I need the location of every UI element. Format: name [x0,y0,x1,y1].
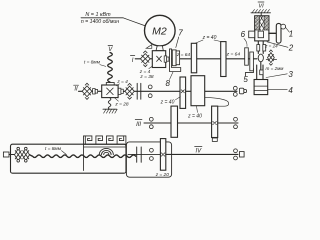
gear z=20 [160,139,165,171]
shaft II [79,90,238,92]
thrust bearing 2 shaft II [125,83,134,99]
brake mark [146,45,152,49]
svg-text:8: 8 [165,79,170,88]
thrust bearing left shaft II [82,83,92,99]
svg-text:М2: М2 [152,25,167,37]
screw gear cap [212,138,217,141]
svg-text:z = 28: z = 28 [114,101,129,107]
svg-text:6: 6 [241,30,246,39]
knob on spindle [258,54,263,62]
shaft IV [166,153,238,155]
svg-text:7: 7 [178,29,183,38]
svg-text:5: 5 [243,75,248,84]
screw V wavy [108,53,113,83]
bearing circles shaft IV right [234,149,238,153]
handwheel star [266,50,276,65]
table box [11,144,127,173]
gear on shaft III [171,106,178,137]
s-curve link [205,97,229,106]
ledge left of block [249,31,255,38]
svg-text:1: 1 [289,30,293,39]
bearing circles shaft III right [234,117,238,121]
svg-text:II: II [74,86,78,92]
svg-text:3: 3 [288,70,293,79]
lever 8 bracket [170,49,181,72]
small gear pair on shaft I [172,50,176,66]
screw cap [106,83,114,85]
drive end cap [3,152,9,157]
svg-text:z = 64: z = 64 [176,52,191,58]
gear z=40 no.2 on shaft I [221,42,226,77]
svg-text:t = 8мм: t = 8мм [84,60,101,66]
claw clutch shaft IV [137,147,142,162]
svg-text:t = 8мм: t = 8мм [45,146,62,152]
svg-text:4: 4 [288,86,293,95]
fixed support hatched bar [251,12,271,14]
sliding gear cluster [245,48,249,65]
coupling left of worm box [93,89,96,94]
motor M2 [145,15,176,46]
bearing circles shaft II [148,85,152,89]
fork lever 5 [245,69,253,77]
squiggle to ground [108,98,111,110]
svg-text:VI: VI [258,4,264,10]
gear z=40 no.1 on shaft I [191,43,196,73]
bevel gears z=24 [257,45,260,51]
svg-text:z = 38: z = 38 [139,74,154,80]
svg-text:m = 2мм: m = 2мм [266,66,285,71]
tool in block [258,31,263,38]
coupling right of worm box [118,88,121,94]
claw clutch shaft II [137,83,141,99]
svg-text:2: 2 [288,44,294,53]
coupling right of box [164,56,167,62]
shaft III [144,122,238,124]
spindle quill [257,65,263,80]
svg-text:z = 40: z = 40 [187,113,202,119]
label motor power N=1kW n=1400 [81,12,119,25]
ground [103,108,117,110]
svg-text:N = 1 кВт: N = 1 кВт [85,12,111,18]
spindle vertical shaft [258,41,263,70]
vertical screw gear [212,106,218,137]
svg-text:III: III [136,122,141,128]
shaft IV end cap [240,152,245,157]
svg-text:IV: IV [195,149,202,155]
tool head block [255,16,269,41]
bearing on shaft I [140,51,150,67]
sprocket pair [15,147,30,162]
spindle cup [254,80,268,95]
svg-text:z = 4: z = 4 [116,79,128,85]
feed enclosure [126,142,171,177]
svg-text:z = 40: z = 40 [160,99,175,105]
shaft II end cap [239,88,243,94]
shaft I [135,58,257,60]
bearing circles shaft IV left [150,148,154,152]
spring in block [260,17,264,31]
block gear z=40 shaft II [191,76,205,106]
svg-text:z = 20: z = 20 [155,172,170,178]
svg-text:z = 64: z = 64 [226,51,241,57]
arm to handle [269,32,276,34]
gear z=40 on shaft II [180,77,186,108]
nut box castellated [84,136,126,171]
bearing circles shaft III left [149,117,153,121]
worm gearbox U/motor [152,51,165,68]
worm gearbox shaft II [102,85,118,98]
svg-text:n = 1400 об/мин: n = 1400 об/мин [81,19,119,25]
nut arcs [99,148,113,154]
lead screw wavy [30,155,136,158]
shaft II right bearing [233,86,237,90]
handle 1 [276,23,281,43]
motor flange [156,46,163,51]
